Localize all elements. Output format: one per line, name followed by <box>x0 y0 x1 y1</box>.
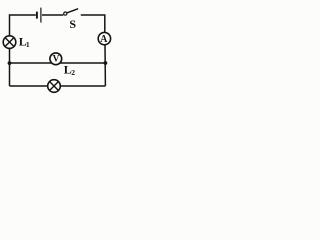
svg-text:1: 1 <box>26 40 30 49</box>
svg-text:2: 2 <box>71 68 75 77</box>
svg-text:A: A <box>100 34 108 45</box>
svg-text:V: V <box>53 54 60 64</box>
svg-text:S: S <box>69 17 76 31</box>
